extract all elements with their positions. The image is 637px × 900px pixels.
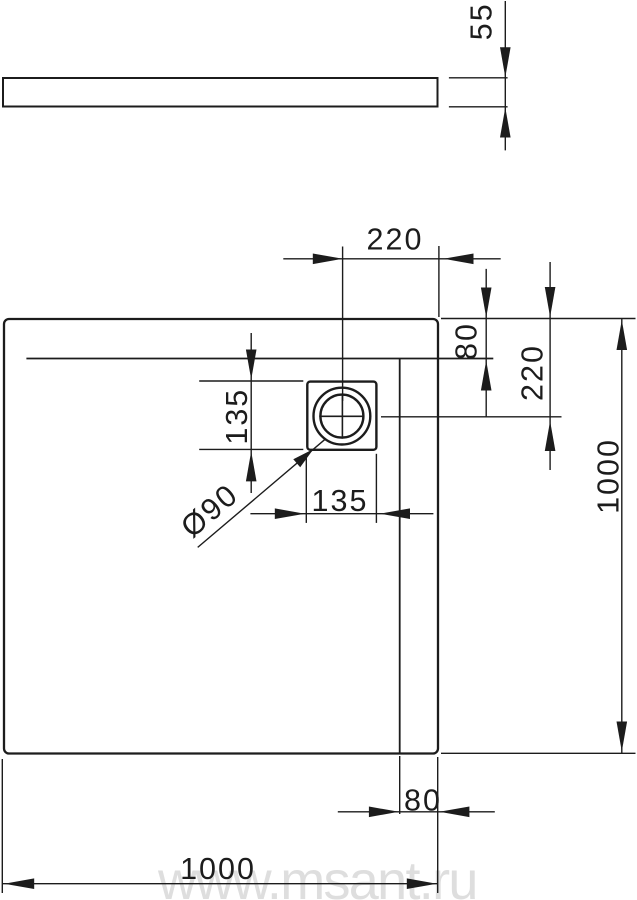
arrow 135 bottom left	[275, 508, 305, 519]
extension line slab top	[449, 77, 508, 79]
svg-text:135: 135	[312, 484, 369, 518]
extension line slab bottom	[449, 106, 508, 108]
svg-text:80: 80	[450, 322, 484, 360]
arrow 220 top left	[313, 254, 343, 265]
drain crosshair vertical	[341, 394, 343, 439]
extension line tray right edge down	[437, 757, 439, 893]
arrow 80 right bottom	[481, 361, 492, 391]
extension line 135 bottom right	[375, 454, 377, 523]
arrow 80 bottom right	[439, 807, 469, 818]
svg-text:220: 220	[367, 223, 424, 257]
dimension line 220 right	[549, 262, 551, 470]
arrow 220 top right	[444, 254, 474, 265]
svg-text:1000: 1000	[180, 852, 256, 886]
tray inner top edge	[26, 358, 493, 360]
arrow 80 right top	[481, 288, 492, 318]
arrow 1000 right top	[617, 320, 628, 350]
extension line tray right edge up	[438, 246, 440, 317]
dimension line 1000 bottom	[2, 883, 437, 885]
arrow 55 top	[500, 47, 511, 77]
arrow 1000 right bottom	[617, 722, 628, 752]
extension line tray bottom edge right	[441, 752, 636, 754]
side view slab outline	[3, 78, 438, 107]
arrow 55 bottom	[500, 108, 511, 138]
tray inner right edge	[399, 359, 401, 754]
arrow 135 left bottom	[246, 451, 257, 481]
dimension line 80 bottom	[338, 811, 495, 813]
drain inner circle	[320, 395, 363, 438]
dimension line 135 left	[250, 333, 252, 493]
arrow 135 bottom right	[380, 508, 410, 519]
dimension line 135 bottom	[250, 513, 433, 515]
drain outer circle	[314, 388, 371, 445]
drain square	[307, 382, 376, 450]
arrow 220 right bottom	[545, 421, 556, 451]
dimension line 55	[504, 1, 506, 150]
svg-text:55: 55	[465, 2, 499, 40]
dimension line 80 right	[485, 269, 487, 417]
extension line 80 bottom left	[399, 756, 401, 814]
svg-text:220: 220	[516, 344, 550, 401]
dimension line 1000 right	[621, 319, 623, 754]
arrow 220 right top	[545, 287, 556, 317]
arrow 80 bottom left	[369, 807, 399, 818]
extension line 135 left top	[199, 380, 303, 382]
dimension line 220 top	[283, 258, 500, 260]
extension line 135 bottom left	[305, 454, 307, 523]
leader line diameter 90	[198, 439, 326, 547]
svg-text:1000: 1000	[591, 438, 625, 514]
tray outline square	[4, 319, 438, 754]
arrow 1000 bottom left	[4, 878, 34, 889]
svg-text:135: 135	[220, 388, 254, 445]
extension line tray top edge right	[441, 318, 636, 320]
arrow 135 left top	[246, 350, 257, 380]
arrow 1000 bottom right	[407, 878, 437, 889]
svg-text:Ø90: Ø90	[175, 477, 246, 544]
extension line 1000 bottom left	[1, 759, 3, 893]
extension line drain center horizontal	[381, 416, 562, 418]
svg-text:80: 80	[404, 784, 442, 818]
leader arrow diameter 90	[293, 449, 313, 467]
extension line drain center vertical	[342, 247, 344, 402]
extension line 135 left bottom	[199, 448, 303, 450]
drain crosshair horizontal	[319, 415, 364, 417]
